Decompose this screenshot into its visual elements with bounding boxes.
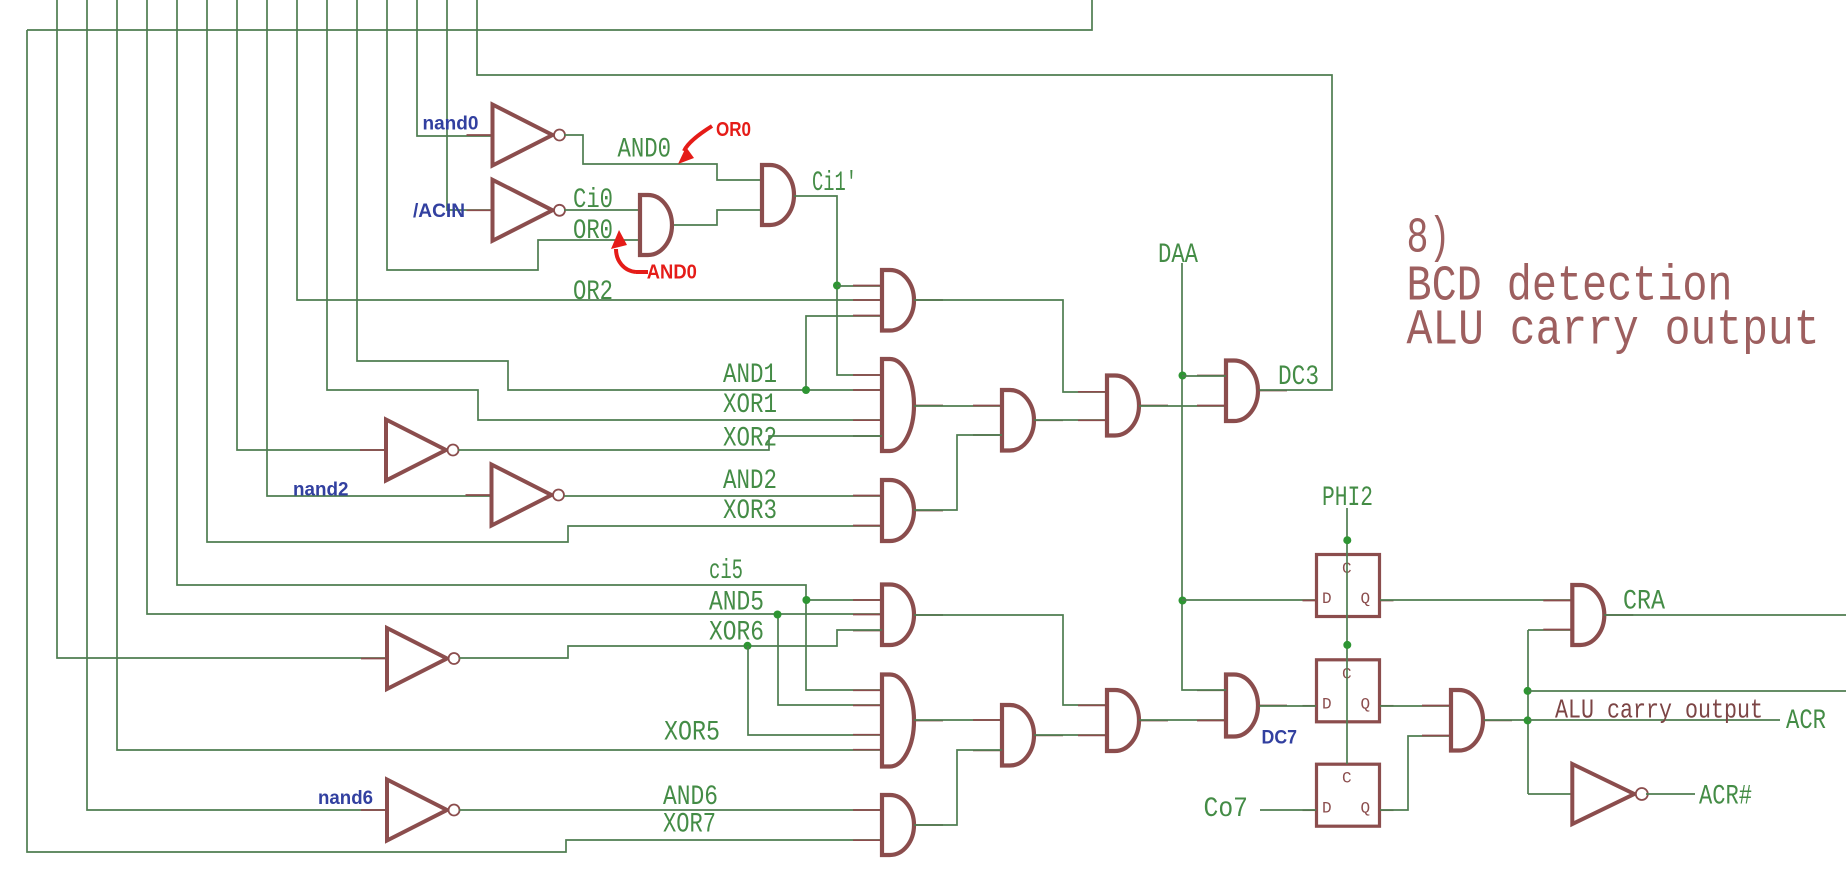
svg-text:XOR5: XOR5 (664, 718, 720, 749)
wire bus L5 x=147 AND5 net to gate G5 (147, 0, 882, 614)
wire bus L13 x=387 OR0 net to gate G1 (387, 0, 640, 270)
wire bus L8 x=237 to inverter U2 input (237, 0, 386, 450)
AND gate G6b (2-input) (1078, 376, 1168, 436)
svg-text:DC3: DC3 (1278, 362, 1319, 393)
AND gate G13 (AND2/XOR3) (853, 480, 943, 541)
wire gate G3 output to gate G6b input 1 (914, 300, 1107, 392)
svg-text:/ACIN: /ACIN (413, 200, 465, 222)
wire top feed from (1092,0) left along y=30 (27, 0, 1092, 30)
wire gate G9 output to gate DC7 input 2 (1139, 719, 1226, 721)
wire bus L6 x=177 ci5 net to gate G5 input 1 (177, 0, 882, 600)
inverter nand0 (467, 105, 566, 166)
svg-text:Q: Q (1361, 590, 1371, 608)
wire gate G13 output up to gate G5b input 2 (914, 435, 1002, 510)
svg-text:C: C (1342, 770, 1352, 788)
wire gate G1 output to gate G2 input 2 (674, 210, 762, 225)
AND gate G5 (3-input, ci5/AND5/XOR6) (853, 585, 943, 646)
svg-text:OR2: OR2 (573, 277, 613, 308)
AND gate G9 (2-input) (1078, 690, 1168, 751)
AND gate G1 (AND0) (640, 195, 672, 255)
AND gate G2 (Ci1') (762, 165, 794, 225)
wire ACR# output (1646, 793, 1695, 795)
inverter U2 (XOR2) (360, 420, 459, 481)
svg-text:ACR#: ACR# (1699, 782, 1752, 813)
svg-text:AND6: AND6 (663, 782, 718, 813)
wire DC7 output to flip-flop FF2 D input (1259, 705, 1316, 707)
wire CRA output right (1604, 614, 1846, 616)
svg-text:OR0: OR0 (716, 119, 751, 141)
wire gate G5 output to gate G9 input 1 (914, 615, 1107, 705)
inverter U6 (XOR6) (361, 628, 460, 689)
wire AND0 net from inverter nand0 to gate G2 input 1 (564, 135, 762, 180)
wire DAA branch to flip-flop FF1 D input (1182, 599, 1316, 601)
AND gate G10 (2-input) (1422, 690, 1512, 751)
junction Ci1' branch (833, 282, 841, 290)
svg-text:Ci1': Ci1' (812, 168, 857, 199)
svg-text:DC7: DC7 (1262, 727, 1298, 749)
wire Ci0 net from inverter /ACIN to gate G1 input 1 (564, 209, 640, 211)
junction ACR node upper (1524, 687, 1532, 695)
wire Ci1' branch to gate G3 input 1 (837, 285, 882, 287)
flip-flop FF3 (1303, 764, 1394, 826)
wire bus L1 x=27 XOR7 net down and bottom run (27, 30, 882, 852)
svg-text:Co7: Co7 (1204, 794, 1249, 825)
inverter ACR# (1572, 764, 1648, 824)
junction DAA to DC3 (1179, 372, 1187, 380)
svg-text:CRA: CRA (1623, 587, 1665, 618)
svg-text:AND2: AND2 (723, 466, 777, 497)
inverter /ACIN (467, 180, 566, 241)
wire bus L12 x=357 AND1 net to gate G4 (357, 0, 882, 390)
svg-text:XOR3: XOR3 (723, 496, 777, 527)
svg-text:Ci0: Ci0 (573, 185, 613, 216)
wire DC3 output to feedback loop (1259, 389, 1288, 391)
svg-text:Q: Q (1361, 695, 1371, 713)
AND gate G5b (2-input) (973, 390, 1063, 451)
svg-text:ACR: ACR (1786, 706, 1826, 737)
svg-text:DAA: DAA (1158, 240, 1198, 271)
svg-text:D: D (1322, 695, 1332, 713)
wire PHI2 clock line through FF1 FF2 to FF3 (1346, 508, 1348, 764)
wire gate G4 output to gate G5b input 1 (914, 405, 1002, 407)
junction XOR6 branch (744, 642, 752, 650)
wire bus L3 x=87 to inverter nand6 input (87, 0, 387, 810)
wire ci5 branch down to gate G6 input 1 (806, 600, 882, 690)
AND gate G6 (4-input) (853, 675, 943, 767)
arrow annotation OR0 (678, 126, 712, 164)
wire XOR6 branch down to gate G6 input 3 (748, 646, 882, 735)
junction AND5 net (774, 611, 782, 619)
wire FF1 Q output to gate CRA input 1 (1380, 599, 1572, 601)
svg-text:AND5: AND5 (709, 588, 764, 619)
svg-text:AND0: AND0 (618, 135, 672, 166)
svg-text:Q: Q (1361, 800, 1371, 818)
arrow annotation AND0 (611, 230, 648, 272)
junction PHI2 above FF1 (1343, 536, 1351, 544)
svg-text:XOR1: XOR1 (723, 390, 777, 421)
AND gate G7 (2-input) (973, 705, 1063, 766)
junction ci5 net (802, 596, 810, 604)
inverter nand6 (361, 780, 460, 841)
wire XOR6 net from inverter U6 to gate G5 input 3 (459, 630, 882, 658)
svg-text:XOR6: XOR6 (709, 618, 764, 649)
wire gate G6 output to gate G7 input 1 (914, 719, 1002, 721)
wire bus L15 x=447 /ACIN inverter input (447, 0, 492, 210)
wire ACR branch to gate CRA input 2 (1528, 629, 1572, 631)
svg-text:XOR2: XOR2 (723, 424, 777, 455)
svg-text:D: D (1322, 590, 1332, 608)
AND gate G4 (4-input, AND1/XOR1) (853, 359, 943, 451)
wire ACR labelled stub (1528, 719, 1780, 721)
wire bus L14 x=417 to inverter nand0 input (417, 0, 492, 136)
wire AND2 net from inverter nand2 to gate G13 input 1 (564, 495, 882, 497)
wire Co7 net to flip-flop FF3 D input (1260, 809, 1316, 811)
svg-text:AND1: AND1 (723, 360, 777, 391)
wire gate G6b output to gate DC3 input 2 (1139, 405, 1226, 407)
junction ACR node lower (1524, 716, 1532, 724)
inverter nand2 (466, 465, 565, 526)
wire gate G8 output up to gate G7 input 2 (914, 750, 1002, 825)
wire gate G5b output to gate G6b input 2 (1034, 419, 1107, 421)
AND gate DC3 (1197, 361, 1287, 422)
svg-text:XOR7: XOR7 (663, 810, 716, 841)
svg-text:ALU carry output: ALU carry output (1555, 697, 1763, 727)
flip-flop FF1 (1303, 555, 1394, 617)
junction AND1 branch (802, 386, 810, 394)
wire bus L16 x=477 DC3 feedback loop (477, 0, 1332, 390)
AND gate G3 (3-input, OR2) (853, 270, 943, 331)
wire bus L10 x=297 OR2 net to gate G3 (297, 0, 882, 300)
wire bus L9 x=267 to inverter nand2 input (267, 0, 492, 496)
svg-text:nand2: nand2 (293, 479, 349, 501)
svg-text:nand0: nand0 (423, 113, 479, 135)
wire Ci1' net from gate G2 down to gate G4 input 1 (794, 196, 882, 375)
wire AND6 net from inverter nand6 to gate G8 input 1 (459, 809, 882, 811)
wire XOR2 net from inverter U2 to gate G4 input 4 (458, 436, 882, 450)
wire FF3 Q output up to gate G10 input 2 (1380, 736, 1451, 810)
svg-text:ALU carry output: ALU carry output (1407, 303, 1820, 360)
wire ACR node vertical (1527, 630, 1529, 794)
flip-flop FF2 (1303, 660, 1394, 722)
svg-text:OR0: OR0 (573, 216, 613, 247)
wire DAA net vertical (1182, 263, 1226, 690)
svg-text:D: D (1322, 800, 1332, 818)
wire ACR branch to inverter ACR# input (1528, 793, 1572, 795)
wire gate G7 output to gate G9 input 2 (1034, 734, 1107, 736)
wire AND1 branch up to gate G3 input 3 (806, 316, 882, 390)
AND gate CRA (1543, 585, 1633, 645)
svg-text:AND0: AND0 (647, 262, 697, 284)
junction DAA to FF1 (1179, 597, 1187, 605)
wire DAA branch to gate DC3 input 1 (1182, 375, 1226, 377)
AND gate G8 (AND6/XOR7) (853, 795, 943, 855)
junction PHI2 above FF2 (1343, 641, 1351, 649)
wire FF2 Q output to gate G10 input 1 (1380, 705, 1451, 707)
wire bus L2 x=57 to inverter U3 input (57, 0, 387, 658)
wire AND5 branch down to gate G6 input 2 (778, 614, 882, 705)
wire bus L11 x=327 XOR1 net to gate G4 (327, 0, 882, 420)
svg-text:PHI2: PHI2 (1322, 483, 1373, 514)
wire ACR long output right (1528, 690, 1846, 692)
wire gate G10 output to ACR node (1484, 719, 1528, 721)
svg-text:nand6: nand6 (318, 787, 373, 809)
AND gate DC7 (1197, 675, 1287, 737)
svg-text:ci5: ci5 (709, 556, 743, 587)
wire bus L7 x=207 XOR3 net to gate G13 (207, 0, 882, 542)
wire bus L4 x=117 XOR5 net to gate G6 (117, 0, 882, 750)
